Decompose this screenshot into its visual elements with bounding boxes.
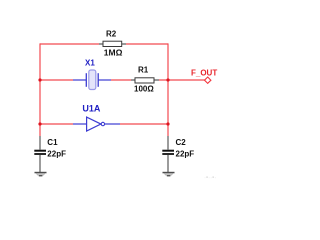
svg-text:R2: R2 <box>106 29 117 38</box>
node junction left-gate (40,124) <box>38 122 41 125</box>
svg-text:·•··•·: ·•··•· <box>204 176 216 181</box>
wire gate row: left rail to inverter input <box>40 123 73 125</box>
node junction left-mid (40,80) <box>38 78 41 81</box>
ground (C2) <box>163 172 175 177</box>
node junction right-mid (168,80) <box>166 78 169 81</box>
watermark <box>204 176 216 182</box>
wire top rail (left segment, y=44) <box>40 43 99 45</box>
wire mid row: R1 to output port <box>159 79 205 81</box>
inverter U1A <box>73 104 120 132</box>
port F_OUT <box>191 69 217 84</box>
resistor R2 <box>99 29 126 57</box>
wire mid row: left rail to crystal <box>40 79 73 81</box>
capacitor C2 <box>162 136 194 172</box>
svg-text:22pF: 22pF <box>47 149 66 158</box>
wire right rail x=168 <box>167 43 169 136</box>
svg-text:F_OUT: F_OUT <box>191 69 217 78</box>
svg-text:22pF: 22pF <box>176 149 195 158</box>
svg-text:C2: C2 <box>176 138 187 147</box>
svg-text:1MΩ: 1MΩ <box>104 47 123 57</box>
ground (C1) <box>35 172 47 177</box>
capacitor C1 <box>34 136 66 172</box>
wire mid row: crystal to R1 <box>111 79 131 81</box>
svg-text:C1: C1 <box>47 138 58 147</box>
wire left rail x=40 <box>39 43 41 136</box>
resistor R1 <box>131 65 159 93</box>
svg-text:X1: X1 <box>85 58 95 67</box>
wire top rail (right segment, y=44) <box>126 43 168 45</box>
svg-text:U1A: U1A <box>82 104 101 114</box>
node junction right-gate (168,124) <box>166 122 169 125</box>
svg-text:100Ω: 100Ω <box>134 84 154 93</box>
crystal X1 <box>73 58 111 89</box>
svg-text:R1: R1 <box>138 65 149 74</box>
wire gate row: inverter output to right rail <box>120 123 168 125</box>
